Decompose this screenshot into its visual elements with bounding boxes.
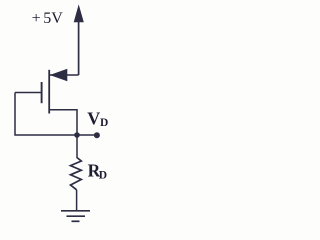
- transistor Q1 source lead with arrowhead: [49, 69, 78, 81]
- ground symbol: [61, 211, 90, 222]
- svg-text:D: D: [100, 117, 108, 129]
- transistor Q1 gate plate: [41, 82, 43, 103]
- node VD terminal: [94, 132, 100, 138]
- resistor RD zigzag: [71, 158, 82, 190]
- transistor Q1 drain lead: [49, 110, 77, 135]
- svg-text:D: D: [99, 169, 107, 181]
- transistor Q1 (PMOS) channel: [48, 70, 50, 114]
- svg-text:V: V: [87, 108, 100, 128]
- transistor Q1 gate lead: [15, 92, 42, 94]
- wire gate feedback loop: [15, 93, 97, 136]
- svg-text:5V: 5V: [43, 10, 63, 27]
- power arrow to +5V: [74, 6, 83, 76]
- wire resistor to ground: [76, 190, 78, 211]
- wire junction to resistor: [76, 135, 78, 158]
- junction node: [74, 132, 80, 138]
- svg-text:+: +: [32, 10, 41, 27]
